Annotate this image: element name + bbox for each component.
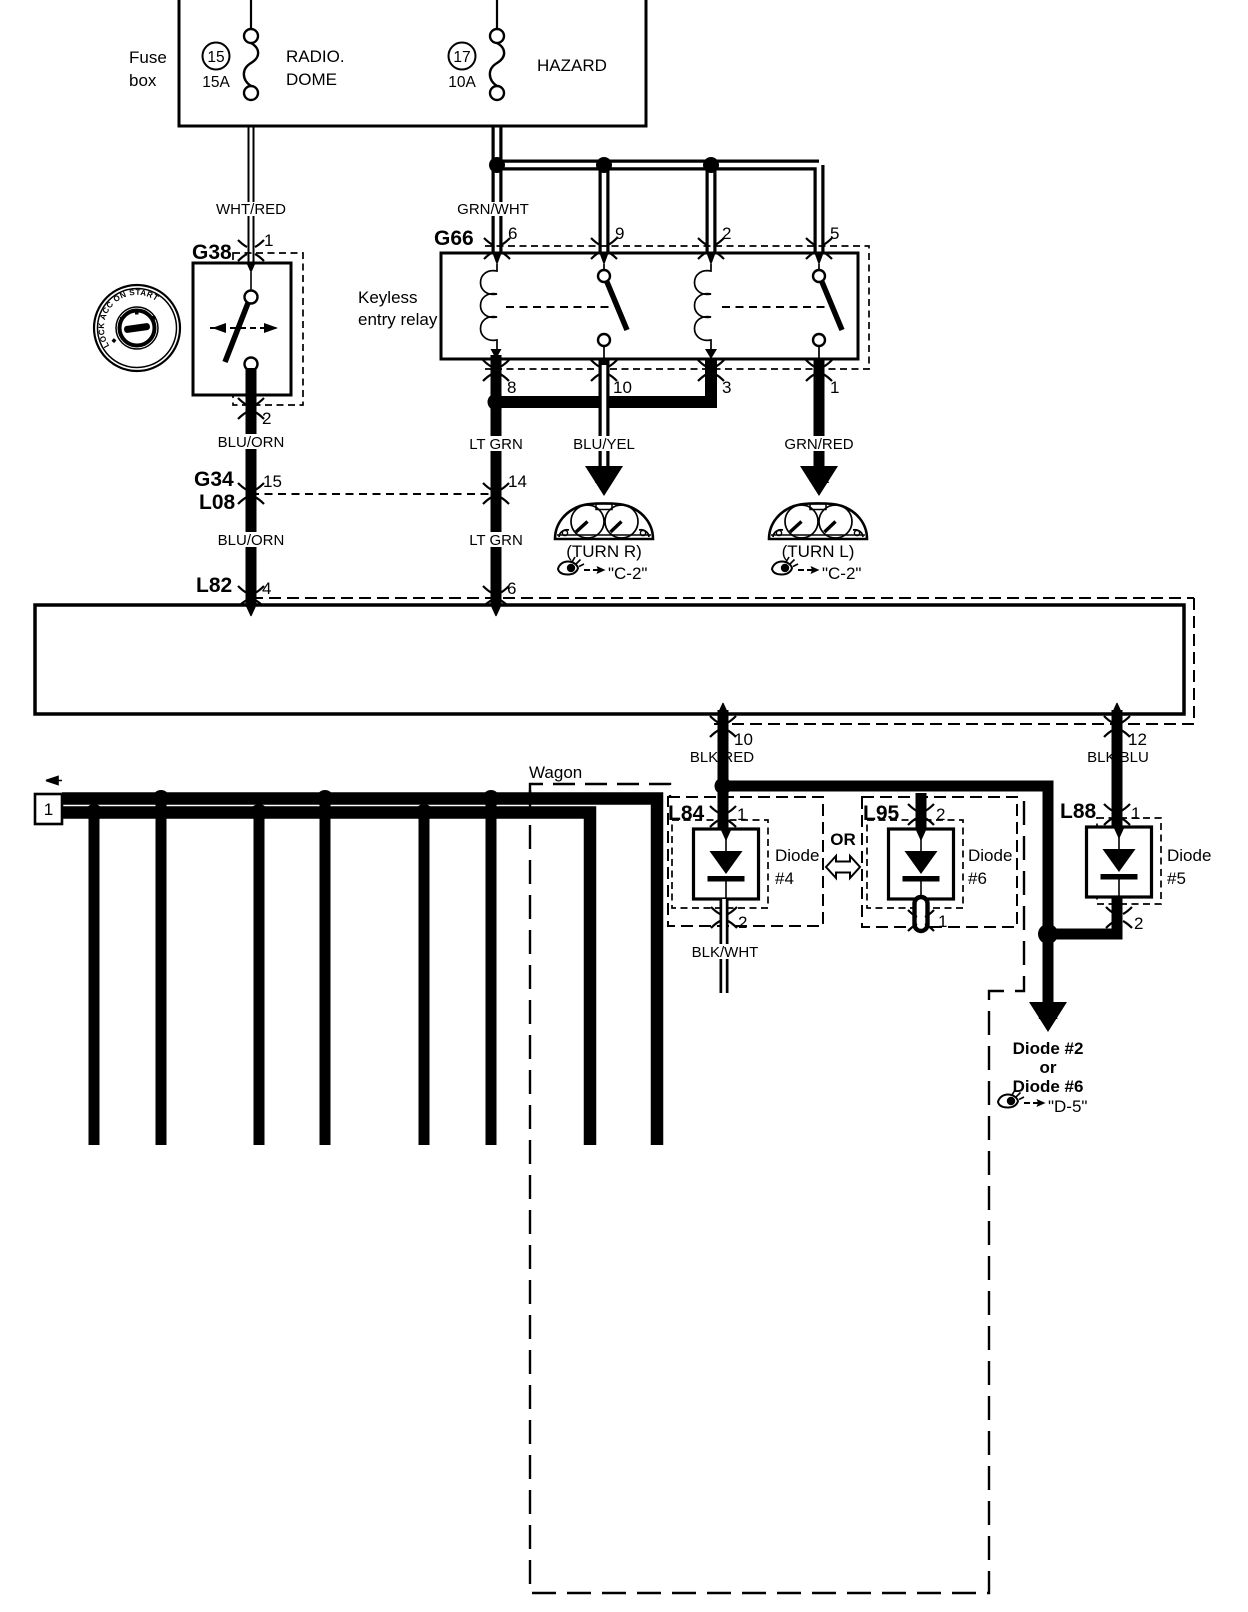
svg-text:L88: L88 (1060, 800, 1097, 823)
wire BLU/YEL pin10 to BY arrow (599, 359, 610, 470)
relay coil 1 (pins 6-8) (481, 253, 502, 359)
eye reference D-5 (998, 1090, 1087, 1116)
svg-text:1: 1 (938, 912, 947, 931)
text Diode #2 or Diode #6 (1013, 1039, 1084, 1096)
relay switch 2 (pins 5-1) (813, 253, 842, 359)
L82 pin 6 (483, 579, 516, 607)
junction pin8/pin3 (488, 394, 505, 411)
svg-text:(TURN R): (TURN R) (566, 542, 642, 561)
svg-text:HAZARD: HAZARD (537, 56, 607, 75)
svg-text:LT GRN: LT GRN (469, 532, 523, 549)
svg-text:2: 2 (262, 409, 271, 428)
diode #5 assembly L88 (1060, 800, 1211, 904)
wire GRN col1 (89, 808, 100, 1145)
fuse 17 HAZARD (448, 0, 607, 100)
wire RED/BLU col1 (156, 794, 167, 1145)
diode #6 assembly L95 (862, 793, 1017, 927)
off-page reference 1 with arrow (35, 777, 62, 825)
svg-text:G66: G66 (434, 227, 474, 250)
G38 pin 1 (238, 231, 273, 261)
svg-text:GRN/WHT: GRN/WHT (457, 201, 529, 218)
svg-text:2: 2 (738, 913, 747, 932)
svg-text:G34: G34 (194, 468, 234, 491)
svg-text:or: or (1040, 1058, 1057, 1077)
svg-text:OR: OR (830, 830, 856, 849)
instrument cluster TURN R (555, 503, 653, 561)
wire WHT/RED from fuse 15 to G38 pin 1 (248, 126, 255, 268)
L84 pin 1 (710, 805, 746, 827)
G66 pin 1 (806, 360, 839, 397)
svg-text:6: 6 (508, 224, 517, 243)
label BLU/ORN (218, 434, 285, 451)
svg-text:RADIO.: RADIO. (286, 47, 345, 66)
svg-text:BLU/YEL: BLU/YEL (573, 436, 635, 453)
svg-text:BLK/RED: BLK/RED (690, 749, 754, 766)
svg-text:L84: L84 (668, 802, 705, 825)
svg-text:Diode #2: Diode #2 (1013, 1039, 1084, 1058)
svg-text:BLU/ORN: BLU/ORN (218, 434, 285, 451)
svg-text:Diode: Diode (1167, 846, 1211, 865)
keyless entry relay G66 (358, 227, 869, 369)
G66 pin 9 (591, 224, 624, 259)
eye reference C-2 (right) (558, 557, 647, 583)
svg-text:L82: L82 (196, 574, 232, 597)
label WHT/RED (216, 201, 286, 218)
svg-text:1: 1 (830, 378, 839, 397)
relay link coil1-switch1 (506, 306, 612, 308)
label GRN/WHT (457, 201, 529, 218)
label LT GRN (upper) (469, 436, 523, 453)
relay switch 1 (pins 9-10) (598, 253, 627, 359)
G38 pin 2 (238, 398, 271, 428)
L95 pin 2 (908, 804, 945, 825)
svg-text:1: 1 (737, 805, 746, 824)
connector L82 row (196, 574, 1194, 598)
G66 pin 3 (698, 360, 731, 397)
G66 pin 8 (483, 360, 516, 397)
svg-text:9: 9 (615, 224, 624, 243)
label LT GRN (lower) (469, 532, 523, 549)
wire BLK/RED controller pin10 down (718, 710, 729, 792)
svg-text:1: 1 (264, 231, 273, 250)
svg-text:2: 2 (936, 805, 945, 824)
keyless entry controller box (35, 598, 1194, 724)
svg-text:L08: L08 (199, 491, 236, 514)
bus junction dots (86, 790, 500, 821)
wire BLK/RED branch to right and down to BR (723, 786, 1048, 934)
wire BLK/BLU controller pin12 down to L88 (1112, 710, 1123, 833)
svg-text:6: 6 (507, 579, 516, 598)
wire GRN/RED pin1 to GR arrow (814, 359, 825, 470)
svg-text:1: 1 (1131, 804, 1140, 823)
svg-text:15: 15 (263, 472, 282, 491)
wire LT GRN pin8 down with branch from pin3 (491, 349, 718, 608)
ignition switch G38 (192, 241, 303, 405)
wire BLK/WHT diode#4 pin2 down (720, 899, 729, 993)
svg-text:"D-5": "D-5" (1048, 1097, 1087, 1116)
BR arrow to diode reference (1029, 1002, 1067, 1032)
G66 pin 5 (806, 224, 839, 259)
svg-text:10: 10 (613, 378, 632, 397)
svg-text:L95: L95 (863, 802, 900, 825)
svg-text:GRN/RED: GRN/RED (784, 436, 853, 453)
OR symbol between diode4 and diode6 (826, 830, 860, 878)
controller pin 10 (710, 716, 753, 749)
connector G34/L08 row (194, 468, 496, 514)
G66 pin 2 (698, 224, 731, 259)
svg-text:box: box (129, 71, 157, 90)
svg-text:Diode: Diode (968, 846, 1012, 865)
svg-text:Wagon: Wagon (529, 763, 582, 782)
svg-text:Diode #6: Diode #6 (1013, 1077, 1084, 1096)
svg-text:2: 2 (1134, 914, 1143, 933)
lower bus wire (to GRN motor wires) (62, 813, 590, 1146)
svg-text:"C-2": "C-2" (822, 564, 861, 583)
svg-text:BLK/BLU: BLK/BLU (1087, 749, 1149, 766)
svg-text:15A: 15A (202, 74, 230, 91)
wire RED/BLU col2 (320, 794, 331, 1145)
G66 pin 6 (484, 224, 517, 259)
L88 pin 2 (1106, 907, 1143, 933)
wire BLU/ORN G38 pin2 down to keyless controller box (246, 368, 257, 608)
relay coil 2 (pins 2-3) (695, 253, 716, 359)
controller pin 12 (1104, 716, 1147, 749)
G34/L08 pin 15 (238, 472, 282, 504)
L82 pin 4 (238, 579, 271, 607)
svg-text:Fuse: Fuse (129, 48, 167, 67)
svg-text:1: 1 (44, 800, 53, 819)
diode #4 assembly L84 (668, 797, 823, 926)
svg-text:2: 2 (722, 224, 731, 243)
svg-text:4: 4 (262, 579, 271, 598)
svg-text:#6: #6 (968, 869, 987, 888)
svg-text:WHT/RED: WHT/RED (216, 201, 286, 218)
svg-text:8: 8 (507, 378, 516, 397)
junction at relay pin2 column (703, 157, 719, 173)
wire GRN/WHT bus from fuse 17 to keyless entry relay (497, 126, 819, 253)
wire from L88 diode pin2 to junction (1048, 898, 1117, 934)
BY arrow to turn-R indicator (585, 466, 623, 496)
svg-text:DOME: DOME (286, 70, 337, 89)
svg-text:BLU/ORN: BLU/ORN (218, 532, 285, 549)
svg-text:17: 17 (453, 49, 470, 66)
svg-text:BY: BY (594, 470, 614, 486)
wire GRN col3 (419, 808, 430, 1145)
wire RED/BLU col3 (486, 794, 497, 1145)
svg-text:14: 14 (508, 472, 527, 491)
svg-text:Diode: Diode (775, 846, 819, 865)
eye reference C-2 (left) (772, 557, 861, 583)
label GRN/RED (784, 436, 853, 453)
junction at fuse17/relay pin6 column (489, 157, 505, 173)
instrument cluster TURN L (769, 503, 867, 561)
svg-text:GR: GR (809, 470, 830, 486)
label BLK/WHT (692, 944, 759, 961)
Wagon variant dashed boundary (529, 763, 1024, 1593)
junction BLK/RED trunk (715, 778, 732, 795)
svg-text:3: 3 (722, 378, 731, 397)
wire GRN col2 (254, 808, 265, 1145)
wire down to BR arrow (1043, 934, 1054, 1006)
svg-text:10: 10 (734, 730, 753, 749)
wire stub L84 pin1 into diode #4 (718, 786, 729, 834)
svg-text:(TURN L): (TURN L) (782, 542, 855, 561)
svg-text:#4: #4 (775, 869, 794, 888)
relay link coil2-switch2 (722, 306, 827, 308)
L84 pin 2 (711, 907, 747, 932)
svg-text:15: 15 (207, 49, 224, 66)
G34/L08 pin 14 (483, 472, 527, 504)
svg-text:5: 5 (830, 224, 839, 243)
L95 pin 1 loop terminal (915, 897, 928, 931)
fuse box (129, 0, 646, 126)
svg-text:"C-2": "C-2" (608, 564, 647, 583)
svg-text:BR: BR (1038, 1006, 1058, 1022)
svg-text:G38: G38 (192, 241, 232, 264)
svg-text:entry relay: entry relay (358, 310, 438, 329)
junction at BR column (1038, 924, 1058, 944)
G66 pin 10 (591, 360, 632, 397)
svg-text:LT GRN: LT GRN (469, 436, 523, 453)
label BLU/ORN (lower) (218, 532, 285, 549)
svg-text:10A: 10A (448, 74, 476, 91)
fuse 15 RADIO DOME (202, 0, 344, 100)
ignition key cylinder icon (94, 285, 180, 371)
svg-text:#5: #5 (1167, 869, 1186, 888)
svg-text:Keyless: Keyless (358, 288, 418, 307)
L95 pin 1 (908, 910, 947, 931)
L88 pin 1 (1104, 804, 1140, 825)
svg-text:12: 12 (1128, 730, 1147, 749)
upper bus wire (to RED/BLU motor wires) (62, 799, 657, 1146)
svg-text:BLK/WHT: BLK/WHT (692, 944, 759, 961)
GR arrow to turn-L indicator (800, 466, 838, 496)
label BLU/YEL (573, 436, 635, 453)
junction at relay pin9 column (596, 157, 612, 173)
